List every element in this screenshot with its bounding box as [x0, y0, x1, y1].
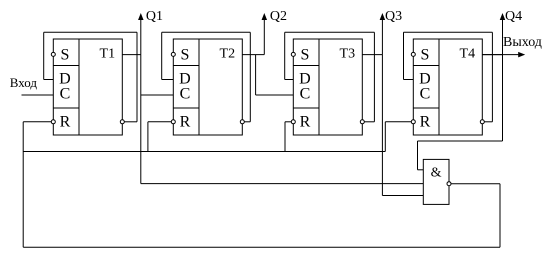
svg-text:S: S — [60, 46, 69, 63]
svg-text:C: C — [60, 86, 71, 103]
svg-text:T2: T2 — [220, 47, 236, 62]
svg-text:R: R — [60, 114, 71, 131]
svg-text:Вход: Вход — [10, 75, 38, 90]
svg-text:R: R — [420, 114, 431, 131]
svg-text:T4: T4 — [460, 47, 476, 62]
svg-text:S: S — [420, 46, 429, 63]
svg-text:Q4: Q4 — [505, 9, 522, 24]
svg-text:&: & — [431, 166, 442, 181]
svg-text:Q3: Q3 — [385, 9, 402, 24]
svg-text:S: S — [300, 46, 309, 63]
svg-text:Q2: Q2 — [270, 9, 287, 24]
svg-text:T3: T3 — [340, 47, 356, 62]
svg-text:T1: T1 — [100, 47, 116, 62]
svg-text:C: C — [300, 86, 311, 103]
svg-text:Q1: Q1 — [146, 9, 163, 24]
svg-text:C: C — [420, 86, 431, 103]
svg-text:R: R — [300, 114, 311, 131]
svg-text:S: S — [180, 46, 189, 63]
svg-text:Выход: Выход — [503, 35, 542, 50]
svg-text:R: R — [180, 114, 191, 131]
svg-text:C: C — [180, 86, 191, 103]
